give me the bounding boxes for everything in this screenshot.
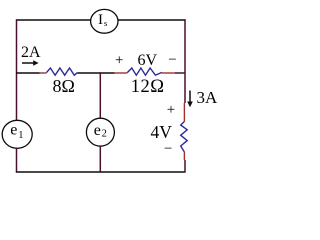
svg-text:−: − [168,52,176,68]
svg-text:6V: 6V [138,52,158,69]
wire middle vertical upper segment [99,72,101,118]
wire middle horizontal center segment (black) [78,72,115,74]
wire left vertical upper segment [16,19,18,120]
svg-text:e: e [10,121,17,138]
current arrow 2A [22,62,35,64]
node e2 circle [86,118,114,146]
wire right vertical lower segment [184,160,186,172]
resistor 8ohm zigzag [47,68,78,75]
resistor lead (4V element bottom, red) [183,152,185,160]
svg-text:4V: 4V [151,122,173,142]
node e1 circle [2,120,32,148]
wire middle vertical lower segment [99,146,101,172]
resistor lead (12ohm right, red) [162,72,175,74]
wire bottom horizontal segment [16,171,186,173]
svg-text:s: s [104,18,107,28]
svg-text:2: 2 [102,128,107,139]
current arrow 3A [189,91,191,104]
svg-text:e: e [94,122,101,139]
wire top-right horizontal segment [118,19,186,21]
svg-text:+: + [115,53,123,69]
wire middle horizontal right segment (maroon) [175,72,185,74]
resistor lead (4V element top, red) [183,103,185,122]
resistor lead (8ohm left, red) [40,72,47,74]
svg-text:8Ω: 8Ω [53,76,75,96]
svg-text:1: 1 [18,130,23,141]
svg-text:3A: 3A [197,88,219,107]
current source Is circle [91,9,118,33]
wire top-left horizontal segment [16,19,91,21]
wire middle horizontal left segment (black) [16,72,40,74]
wire left vertical lower segment [16,148,18,172]
svg-text:−: − [164,141,172,157]
resistor lead (12ohm left, red) [115,72,128,74]
svg-text:+: + [167,102,175,118]
svg-text:I: I [98,12,103,28]
resistor 12ohm zigzag [127,68,162,75]
svg-text:12Ω: 12Ω [131,77,165,97]
wire right vertical upper segment [184,19,186,103]
svg-text:2A: 2A [21,44,41,61]
resistor 4V vertical zigzag [181,122,188,153]
